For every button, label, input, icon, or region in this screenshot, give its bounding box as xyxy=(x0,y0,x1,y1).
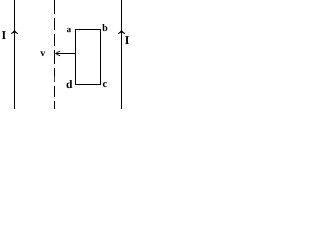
dashed line: segment 6 xyxy=(54,86,56,97)
wire right (current I, upward) xyxy=(121,0,123,109)
dashed line: segment 5 (black part) xyxy=(54,68,56,76)
dashed line: segment 5 (gray tail) xyxy=(54,76,56,82)
velocity arrowhead (pointing left) xyxy=(55,51,60,56)
label I (right wire) xyxy=(125,36,129,44)
wire left (current I, upward) xyxy=(14,0,16,109)
velocity arrow wire (leftward from loop) xyxy=(56,53,76,55)
node a (top-left corner label) xyxy=(67,28,71,32)
dashed line: segment 3 xyxy=(54,34,56,46)
dashed line: segment 4 xyxy=(54,50,56,64)
node b (top-right corner label) xyxy=(102,24,107,31)
dashed line: segment 2 xyxy=(54,18,56,30)
node d (bottom-left corner label) xyxy=(66,80,72,88)
arrowhead up on left wire xyxy=(11,30,18,34)
arrowhead up on right wire xyxy=(118,30,125,34)
rectangular loop abcd xyxy=(76,30,101,85)
label I (left wire) xyxy=(2,31,6,39)
dashed line: segment 1 xyxy=(54,0,56,14)
dashed line: segment 7 xyxy=(54,101,56,109)
label v (velocity) xyxy=(40,51,45,56)
node c (bottom-right corner label) xyxy=(103,82,107,87)
